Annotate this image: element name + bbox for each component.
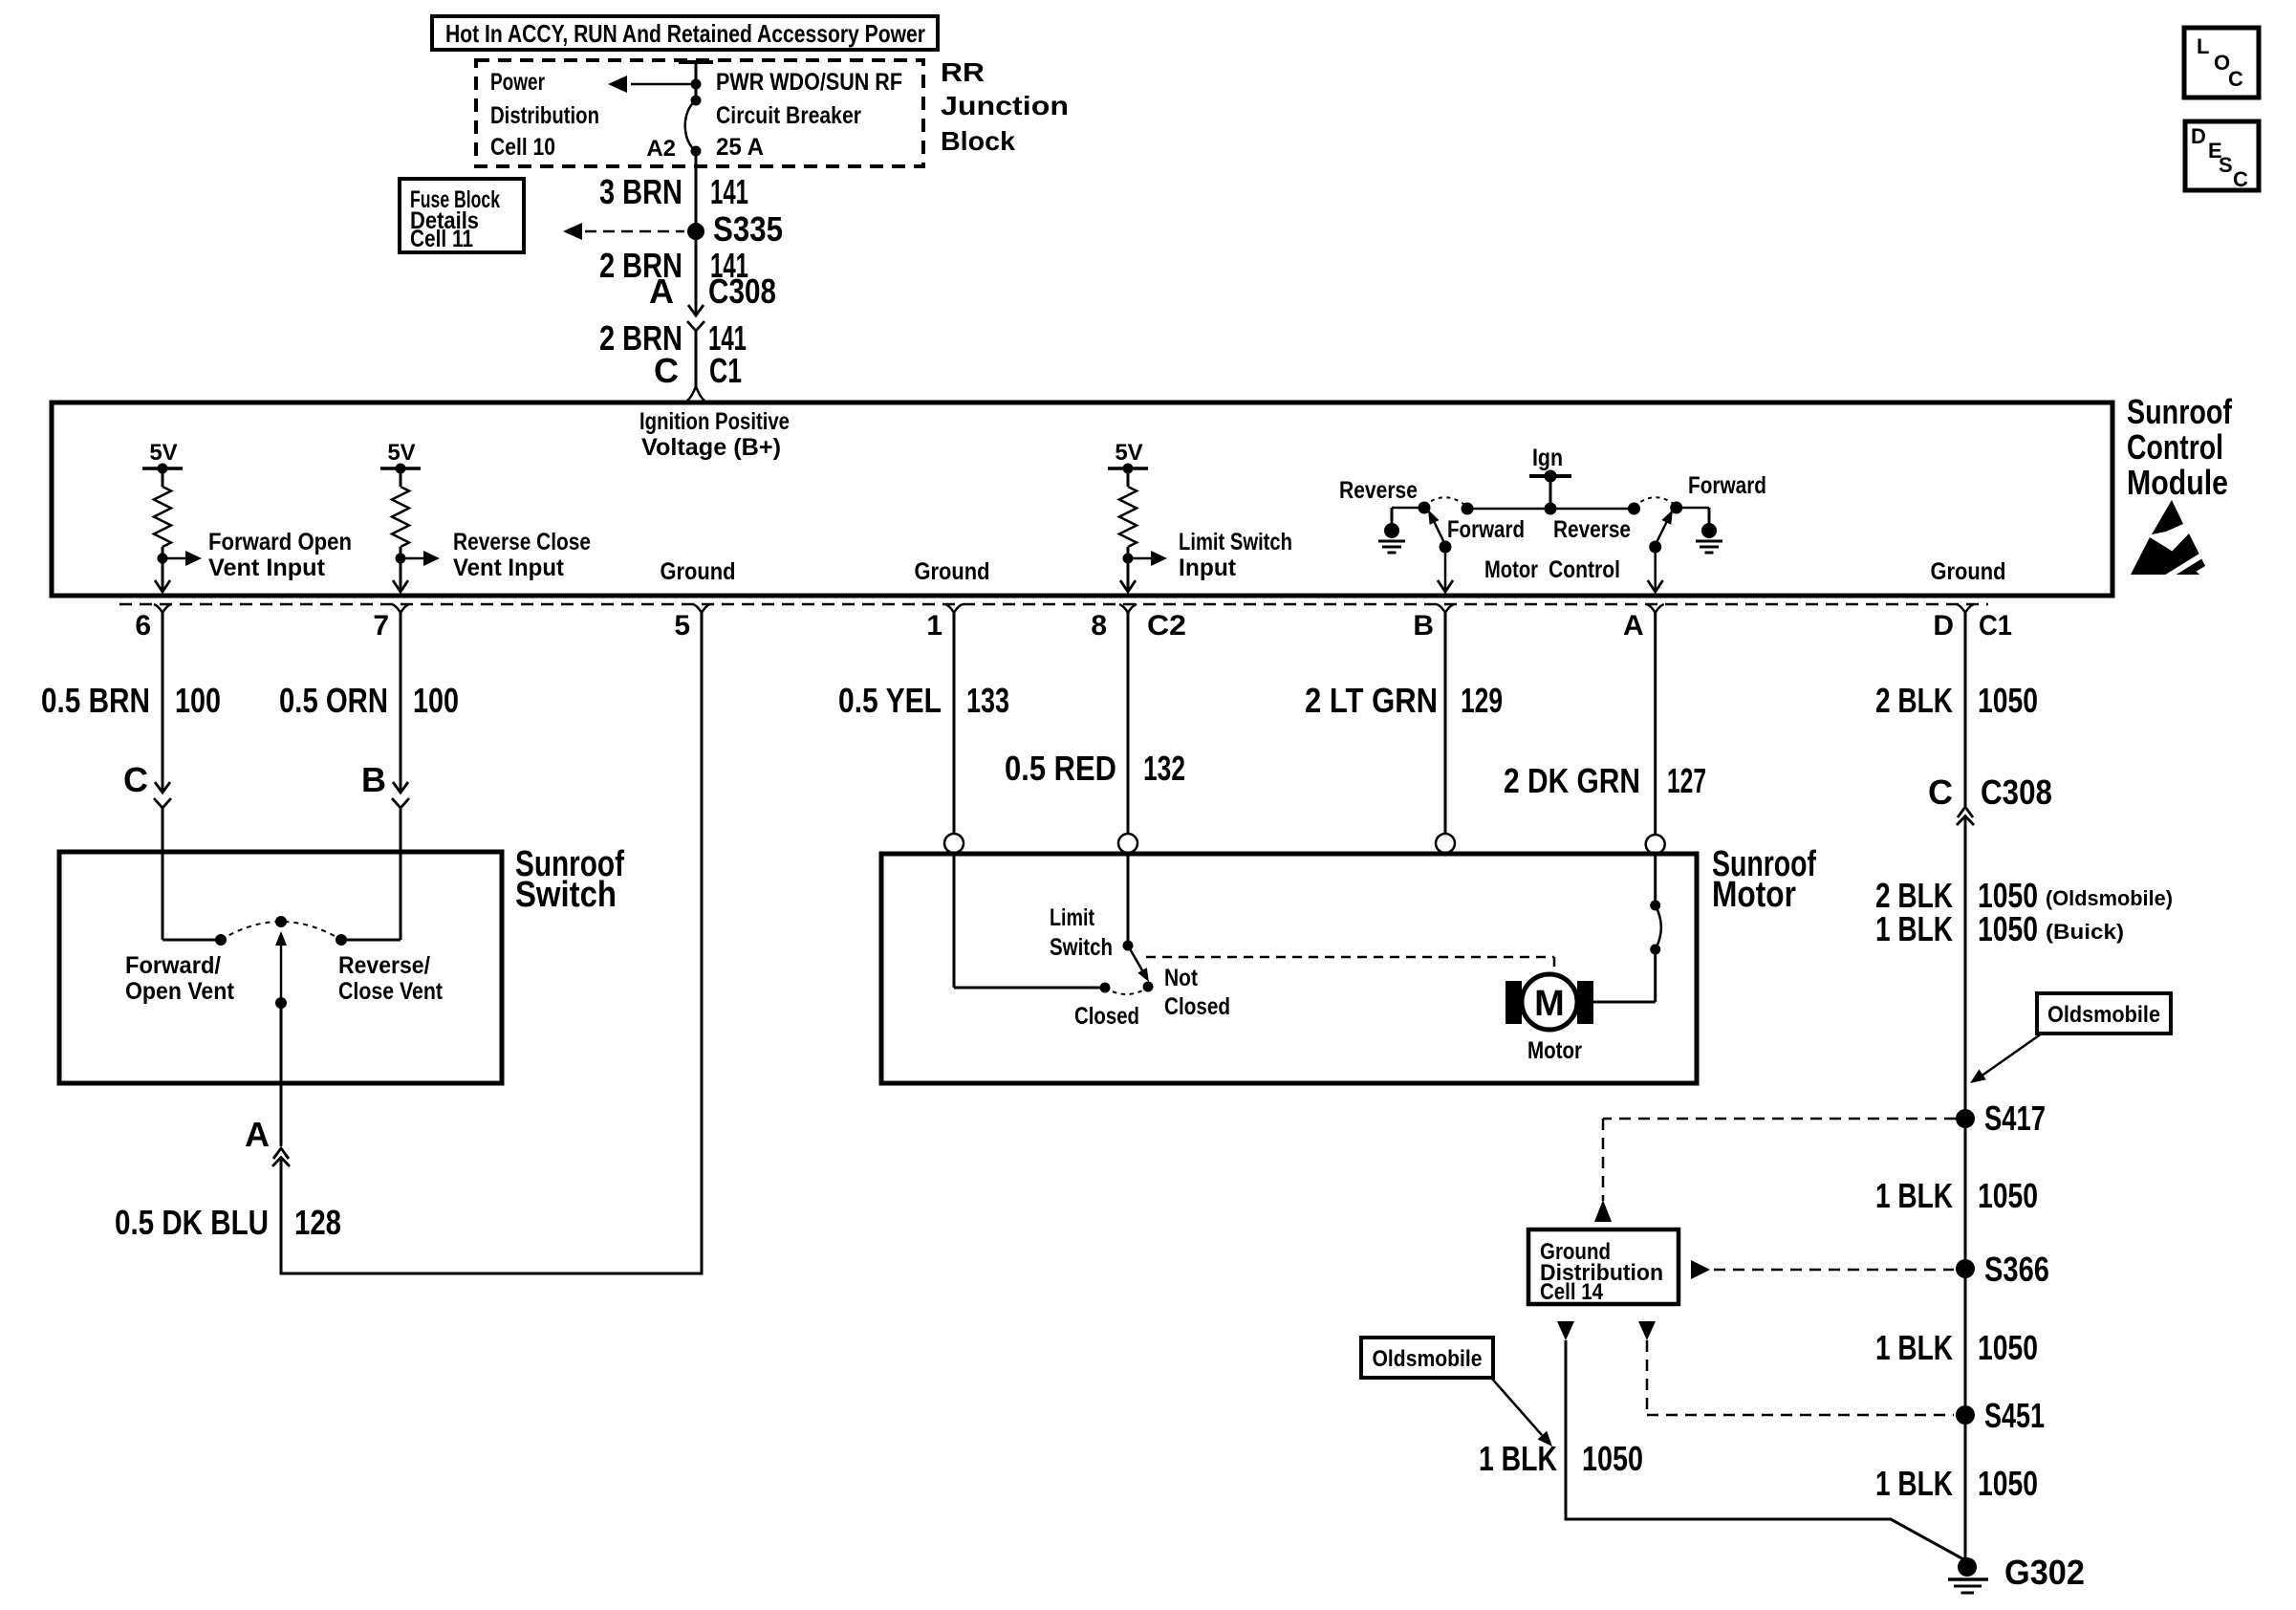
- svg-text:Control: Control: [1549, 556, 1620, 583]
- svg-text:Module: Module: [2127, 463, 2228, 502]
- svg-text:B: B: [1413, 610, 1434, 642]
- svg-text:D: D: [1933, 610, 1954, 642]
- svg-text:2 BLK: 2 BLK: [1875, 681, 1953, 720]
- svg-text:S451: S451: [1984, 1396, 2045, 1435]
- svg-text:1050: 1050: [1978, 681, 2038, 720]
- svg-text:Open Vent: Open Vent: [125, 978, 235, 1005]
- svg-text:129: 129: [1461, 681, 1503, 720]
- svg-text:C308: C308: [1981, 772, 2052, 812]
- svg-text:133: 133: [966, 681, 1009, 720]
- svg-text:Forward: Forward: [1447, 516, 1525, 543]
- svg-text:Block: Block: [941, 126, 1015, 156]
- svg-text:7: 7: [373, 610, 389, 642]
- svg-text:C1: C1: [709, 351, 742, 390]
- svg-text:0.5 BRN: 0.5 BRN: [41, 681, 150, 720]
- svg-text:1050: 1050: [1978, 909, 2038, 948]
- svg-text:Hot In ACCY, RUN And Retained: Hot In ACCY, RUN And Retained Accessory …: [445, 19, 925, 48]
- svg-text:Switch: Switch: [515, 875, 617, 915]
- svg-text:B: B: [361, 760, 386, 799]
- svg-text:0.5 YEL: 0.5 YEL: [838, 681, 942, 720]
- svg-text:S: S: [2219, 153, 2233, 177]
- svg-text:5V: 5V: [387, 440, 415, 466]
- svg-text:Cell 14: Cell 14: [1540, 1279, 1604, 1305]
- svg-text:Motor: Motor: [1484, 556, 1538, 583]
- svg-text:Ground: Ground: [915, 558, 990, 585]
- svg-text:1 BLK: 1 BLK: [1875, 1464, 1953, 1503]
- svg-text:5V: 5V: [149, 440, 177, 466]
- svg-text:0.5 RED: 0.5 RED: [1005, 749, 1116, 788]
- svg-text:6: 6: [135, 610, 151, 642]
- svg-text:100: 100: [175, 681, 221, 720]
- svg-text:Not: Not: [1164, 965, 1199, 991]
- svg-text:Ground: Ground: [661, 558, 736, 585]
- svg-text:1 BLK: 1 BLK: [1479, 1439, 1557, 1478]
- svg-text:Oldsmobile: Oldsmobile: [2047, 1002, 2160, 1028]
- svg-text:132: 132: [1143, 749, 1185, 788]
- svg-text:RR: RR: [941, 57, 985, 87]
- svg-text:2 DK GRN: 2 DK GRN: [1504, 761, 1640, 800]
- svg-text:Reverse/: Reverse/: [338, 952, 430, 979]
- svg-text:3 BRN: 3 BRN: [599, 172, 682, 211]
- svg-text:1050: 1050: [1978, 1464, 2038, 1503]
- svg-text:1050: 1050: [1978, 1176, 2038, 1215]
- svg-text:100: 100: [413, 681, 459, 720]
- svg-text:M: M: [1534, 984, 1565, 1024]
- svg-text:PWR WDO/SUN RF: PWR WDO/SUN RF: [716, 69, 902, 96]
- svg-text:Control: Control: [2127, 427, 2223, 467]
- svg-text:D: D: [2191, 124, 2206, 148]
- svg-text:Ground: Ground: [1931, 558, 2006, 585]
- svg-text:1: 1: [926, 610, 942, 642]
- svg-text:C: C: [2233, 167, 2248, 191]
- svg-text:Oldsmobile: Oldsmobile: [1373, 1346, 1483, 1372]
- svg-text:(Oldsmobile): (Oldsmobile): [2046, 886, 2173, 910]
- svg-text:Closed: Closed: [1164, 993, 1230, 1020]
- svg-text:Junction: Junction: [941, 91, 1069, 120]
- svg-text:Limit Switch: Limit Switch: [1179, 529, 1292, 555]
- svg-text:Input: Input: [1179, 555, 1237, 581]
- svg-text:Vent Input: Vent Input: [453, 555, 565, 581]
- svg-text:A: A: [245, 1115, 270, 1154]
- svg-text:C308: C308: [708, 272, 776, 311]
- svg-text:Limit: Limit: [1050, 904, 1095, 931]
- svg-text:Ignition Positive: Ignition Positive: [639, 408, 790, 435]
- svg-text:Reverse Close: Reverse Close: [453, 529, 591, 555]
- svg-text:Cell 11: Cell 11: [410, 226, 473, 252]
- svg-text:Close Vent: Close Vent: [338, 978, 444, 1005]
- svg-text:A2: A2: [646, 136, 676, 162]
- svg-text:1 BLK: 1 BLK: [1875, 1328, 1953, 1367]
- svg-text:G302: G302: [2004, 1553, 2085, 1592]
- svg-text:L: L: [2197, 34, 2209, 58]
- svg-text:Forward/: Forward/: [125, 952, 221, 979]
- svg-text:Switch: Switch: [1050, 934, 1113, 961]
- svg-text:Reverse: Reverse: [1553, 516, 1631, 543]
- svg-text:Forward Open: Forward Open: [208, 529, 352, 555]
- svg-text:Cell 10: Cell 10: [490, 134, 555, 161]
- svg-text:Circuit Breaker: Circuit Breaker: [716, 102, 861, 129]
- svg-text:1 BLK: 1 BLK: [1875, 1176, 1953, 1215]
- svg-text:(Buick): (Buick): [2046, 920, 2124, 944]
- svg-text:Motor: Motor: [1712, 875, 1796, 915]
- svg-text:1050: 1050: [1978, 1328, 2038, 1367]
- svg-text:Forward: Forward: [1688, 472, 1766, 499]
- svg-text:A: A: [1623, 610, 1644, 642]
- svg-text:Ign: Ign: [1532, 445, 1563, 471]
- svg-text:A: A: [649, 272, 674, 311]
- svg-text:Vent Input: Vent Input: [208, 555, 326, 581]
- svg-text:Power: Power: [490, 69, 545, 96]
- svg-text:C: C: [2228, 67, 2243, 91]
- svg-text:Distribution: Distribution: [490, 102, 599, 129]
- svg-text:S335: S335: [713, 209, 783, 249]
- svg-text:Voltage (B+): Voltage (B+): [641, 434, 781, 461]
- svg-text:C2: C2: [1147, 610, 1186, 642]
- svg-text:C: C: [123, 760, 148, 799]
- svg-text:Closed: Closed: [1074, 1003, 1139, 1030]
- svg-text:S366: S366: [1984, 1250, 2049, 1289]
- svg-text:128: 128: [294, 1203, 341, 1242]
- svg-text:127: 127: [1667, 761, 1706, 800]
- svg-text:2 LT GRN: 2 LT GRN: [1305, 681, 1438, 720]
- svg-text:Motor: Motor: [1527, 1037, 1582, 1064]
- svg-text:C: C: [654, 351, 679, 390]
- svg-text:1 BLK: 1 BLK: [1875, 909, 1953, 948]
- svg-text:25 A: 25 A: [716, 134, 764, 161]
- svg-text:5: 5: [674, 610, 690, 642]
- svg-text:8: 8: [1091, 610, 1107, 642]
- svg-text:C1: C1: [1979, 610, 2012, 642]
- svg-text:5V: 5V: [1115, 440, 1142, 466]
- svg-text:S417: S417: [1984, 1099, 2046, 1138]
- svg-text:Reverse: Reverse: [1339, 477, 1418, 504]
- svg-text:1050: 1050: [1582, 1439, 1643, 1478]
- svg-text:0.5 DK BLU: 0.5 DK BLU: [115, 1203, 269, 1242]
- svg-text:141: 141: [710, 172, 748, 211]
- svg-text:0.5 ORN: 0.5 ORN: [279, 681, 388, 720]
- svg-text:Sunroof: Sunroof: [2127, 392, 2233, 431]
- svg-text:C: C: [1928, 772, 1953, 812]
